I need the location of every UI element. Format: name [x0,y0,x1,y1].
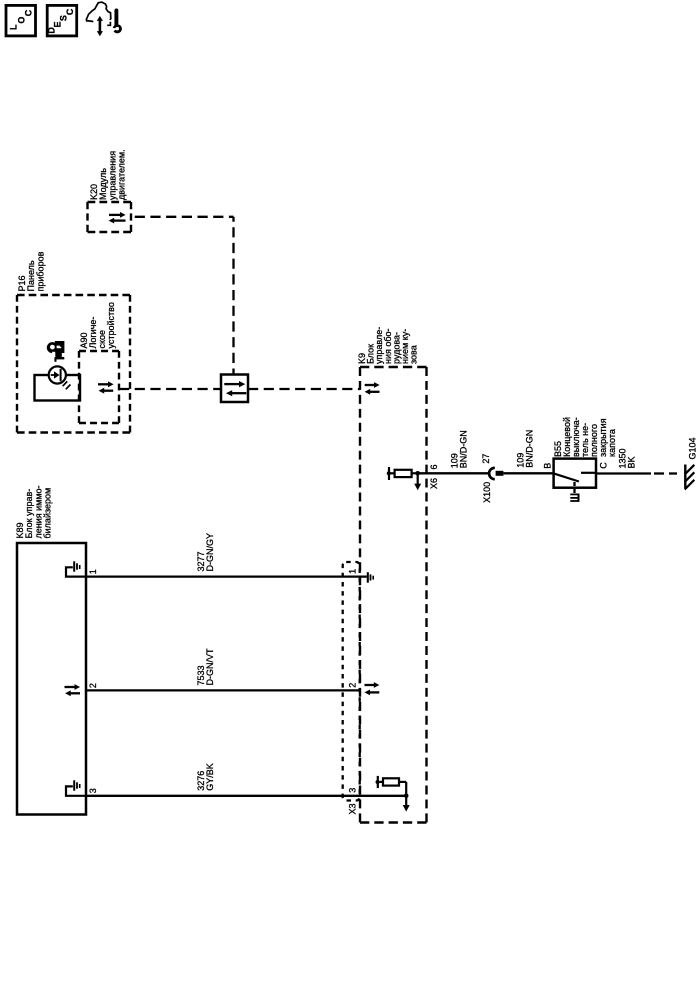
svg-text:G104: G104 [688,437,698,459]
wire B55 to G104 (solid then dashed) [596,472,651,474]
driver (resistor) at K9 pin 6 [387,467,422,490]
connector X3 (dotted box) [343,562,360,801]
instrument panel P16 (dashed box) [17,294,130,296]
svg-text:C: C [24,9,34,16]
ground symbol inside K9 at pin1 [368,572,373,583]
serial data symbol in gateway [224,381,246,396]
wire 3277 K89 pin1 to K9 [86,575,367,577]
svg-text:B: B [543,463,553,469]
wire K9 pin6 to X100 [419,472,489,474]
svg-text:2: 2 [348,683,358,688]
serial data symbol in K9 [365,382,380,395]
svg-text:27: 27 [481,454,491,464]
inline connector X100 [489,468,503,479]
wire X100 to B55 [503,472,553,474]
LOC button [6,5,36,36]
wrench icon [110,10,122,33]
hood ajar switch B55 (box) [554,459,596,488]
immobilizer control module K89 (box) [17,543,86,815]
svg-text:O: O [16,17,26,24]
wire serial data corner down to splice box (dashed) [232,217,234,375]
splice pack / gateway box [221,375,248,403]
wire 7533 K89 pin2 to K9 [86,689,360,691]
switch blade inside B55 [554,473,596,482]
vehicle outline icon [86,2,111,25]
svg-text:6: 6 [429,464,439,469]
driver (resistor) inside K9 at pin3 [376,776,410,812]
indicator LED lamp symbol [49,366,71,389]
svg-text:C: C [65,8,75,15]
wire serial data gateway to K9 (dashed) [248,388,360,390]
internal ground symbol at K89 pin 1 [66,561,86,576]
svg-text:3: 3 [348,788,358,793]
serial data symbol in K89 (pin 2) [65,684,81,696]
svg-text:E: E [53,21,63,27]
DESC button [47,5,77,36]
svg-text:C: C [599,462,609,469]
wire 3276 K89 pin3 to K9 [86,795,406,797]
internal ground symbol at K89 pin 3 [66,780,86,796]
switch actuator dashed link [573,482,575,494]
wire serial data A90 to splice box (dashed) [119,388,221,390]
module K20 (dashed box) [88,201,132,203]
svg-text:X100: X100 [482,482,492,503]
up-down arrow of vehicle icon [97,16,103,36]
security indicator icon [47,341,65,362]
svg-text:2: 2 [88,683,98,688]
ground G104 [685,465,695,490]
body control module K9 (dashed box) [360,366,427,368]
serial data symbol in A90 [98,381,114,393]
svg-text:L: L [8,24,18,30]
wire serial data K20 to corner (dashed) [131,216,234,218]
logic device A90 (dashed box) [79,350,119,352]
svg-text:B55Концевойвыключа-тель не-пол: B55Концевойвыключа-тель не-полногозакрыт… [553,417,617,457]
svg-text:X3: X3 [348,803,358,814]
indicator lamp box (solid) [35,375,81,401]
serial data symbol in K20 [109,212,126,224]
svg-text:X6: X6 [429,478,439,489]
cam actuator symbol [570,494,578,502]
svg-text:3: 3 [88,788,98,793]
serial data symbol in K9 at pin2 [364,682,379,695]
svg-text:1: 1 [88,569,98,574]
svg-text:1: 1 [348,569,358,574]
